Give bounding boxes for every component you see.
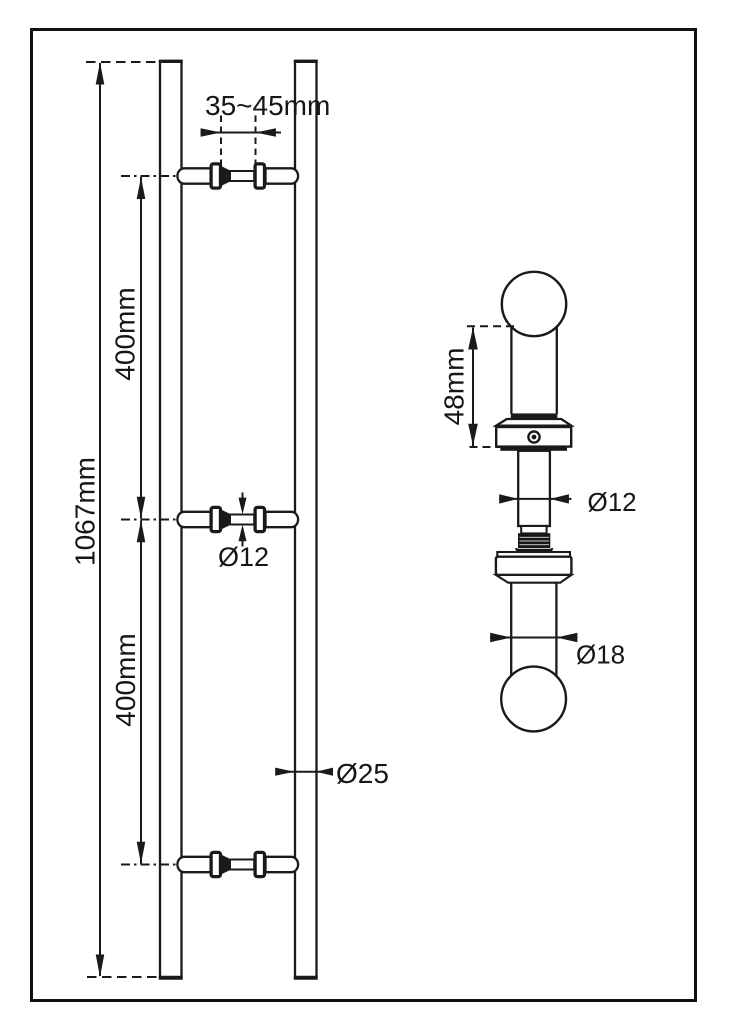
svg-text:Ø12: Ø12 [218,542,269,572]
35~45mm dimension line [201,128,282,137]
glass thickness left extension dashed line [220,116,222,167]
bottom extension dashed line [87,976,159,978]
diameter 12 arrows (left view) [239,493,247,547]
set screw [528,431,539,442]
diameter 25 dimension line [275,768,333,776]
48mm top extension dashed line [467,325,516,327]
400mm lower dimension line [137,520,146,864]
nut chamfer [496,575,572,583]
400mm upper dimension line [137,177,146,519]
48mm dimension line [468,327,478,446]
right handle tube [294,61,318,978]
detail view top ball [502,272,566,336]
svg-text:Ø12: Ø12 [588,487,637,517]
svg-text:400mm: 400mm [110,633,141,726]
diameter 12 dimension line (detail view) [499,494,571,503]
svg-text:48mm: 48mm [439,348,470,426]
svg-text:Ø25: Ø25 [336,758,389,789]
collar bottom lip [500,447,567,451]
lock nut [496,557,572,575]
middle glass fastener assembly [177,507,298,531]
detail view neck cylinder [511,327,556,414]
rod neck [521,526,546,533]
svg-text:400mm: 400mm [110,287,141,380]
washer plate [497,552,570,557]
diameter 18 dimension line [490,633,578,642]
svg-text:1067mm: 1067mm [70,457,101,566]
top glass fastener assembly [177,164,298,188]
threaded rod (diameter 12) [518,451,550,526]
middle connector centerline [121,519,177,521]
bottom glass fastener assembly [177,852,298,876]
collar top band [511,413,558,419]
detail view bottom ball [501,667,566,732]
1067mm dimension line [96,62,105,976]
glass thickness right extension dashed line [255,116,257,167]
bottom connector centerline [121,864,177,866]
thread block [515,533,554,552]
top connector centerline [121,175,177,177]
collar body [496,427,571,447]
svg-text:Ø18: Ø18 [576,640,625,670]
top extension dashed line [86,61,160,63]
sleeve (diameter 18) [511,583,556,676]
collar flare [496,419,571,426]
svg-text:35~45mm: 35~45mm [205,90,330,121]
48mm bottom extension dashed line [470,446,503,448]
left handle tube [159,61,183,978]
